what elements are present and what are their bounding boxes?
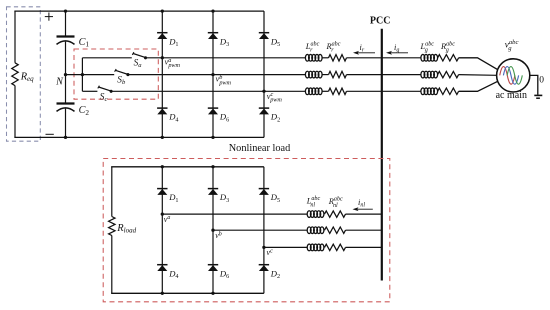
- wire coil-res a: [322, 57, 329, 59]
- wire left loop top: [14, 11, 16, 63]
- wire bridge leg c: [263, 11, 265, 137]
- svg-text:0: 0: [539, 76, 544, 86]
- wire load phase c: [264, 246, 307, 248]
- junction dot split node: [81, 73, 84, 76]
- wire load coil-res c: [323, 246, 326, 248]
- switch Sc: [98, 86, 113, 93]
- switch Sb: [115, 69, 130, 76]
- switch Sa: [132, 52, 147, 59]
- diode D4 load: [157, 265, 167, 271]
- diode D4: [157, 108, 167, 114]
- inductor Lg phase c: [421, 88, 438, 95]
- node vb dot: [211, 229, 214, 232]
- sine wave green phase: [507, 67, 522, 85]
- wire C1 top: [65, 11, 67, 36]
- resistor Rnl phase a: [325, 211, 346, 217]
- resistor Rr phase b: [329, 71, 347, 77]
- wire load coil-res b: [323, 229, 326, 231]
- wire load phase a: [162, 213, 307, 215]
- resistor Rg phase b: [438, 71, 459, 77]
- wire C1 to node N: [65, 42, 67, 75]
- sine wave blue phase: [503, 67, 518, 85]
- svg-text:N: N: [55, 76, 64, 87]
- wire Lg-Rg a: [436, 57, 438, 59]
- inductor Lg phase b: [421, 71, 438, 78]
- inductor Lg phase a: [421, 54, 438, 61]
- wire phase c to filter: [264, 90, 306, 92]
- wire load left bottom: [111, 236, 113, 294]
- current arrow ir: [353, 51, 375, 55]
- diode D5: [259, 33, 269, 39]
- node vc dot: [262, 246, 265, 249]
- ac source circle: [497, 59, 530, 92]
- resistor Rg phase c: [438, 88, 459, 94]
- wire coil-res c: [322, 90, 329, 92]
- wire Sa to leg a: [146, 57, 163, 59]
- wire Rnl c to PCC: [346, 246, 382, 248]
- wire branch a to switch Sa: [82, 57, 131, 59]
- wire load leg a: [161, 167, 163, 293]
- wire load bottom rail: [111, 292, 264, 294]
- resistor Rr phase c: [329, 88, 347, 94]
- wire Rr a to PCC: [347, 57, 422, 59]
- wire split vertical: [81, 58, 83, 92]
- inductor Lnl phase b: [307, 227, 324, 234]
- wire bridge leg b: [212, 11, 214, 137]
- node vpwm c dot: [262, 90, 265, 93]
- wire load leg b: [212, 167, 214, 293]
- resistor Rnl phase c: [325, 244, 346, 250]
- inductor Lr phase b: [305, 71, 322, 78]
- junction dots load bottom rail: [161, 292, 215, 295]
- node vpwm b dot: [211, 73, 214, 76]
- node vpwm a dot: [161, 56, 164, 59]
- wire coil-res b: [322, 74, 329, 76]
- capacitor C1: [57, 37, 75, 45]
- wire C2 bottom: [65, 109, 67, 138]
- label - terminal: [46, 133, 54, 135]
- node va dot: [161, 212, 164, 215]
- junction dot C1 top: [64, 9, 67, 12]
- wire source to ground: [530, 75, 538, 94]
- inductor Lnl phase c: [307, 244, 324, 251]
- wire phase b to filter: [213, 74, 306, 76]
- wire left loop bottom: [14, 86, 16, 138]
- current arrow inl: [353, 207, 373, 211]
- wire bridge leg a: [161, 11, 163, 137]
- PCC bus bar: [381, 29, 383, 281]
- diode D3: [208, 33, 218, 39]
- diode D2: [259, 108, 269, 114]
- resistor Rg phase a: [438, 55, 459, 61]
- resistor Rload: [109, 217, 115, 236]
- wire Sc to leg c: [111, 90, 264, 92]
- node N dot: [64, 73, 67, 76]
- wire load top rail: [111, 166, 264, 168]
- dashed box nonlinear load: [103, 159, 390, 302]
- wire top rail: [14, 10, 264, 12]
- wire Rg b to source: [459, 74, 497, 77]
- svg-text:PCC: PCC: [370, 15, 391, 26]
- wire load phase b: [213, 229, 307, 231]
- wire load left top: [111, 167, 113, 217]
- junction dots top rail: [161, 9, 215, 12]
- svg-text:Nonlinear load: Nonlinear load: [229, 143, 291, 154]
- svg-text:ac main: ac main: [496, 90, 527, 101]
- svg-text:C1: C1: [79, 37, 90, 49]
- wire bottom rail: [14, 136, 264, 138]
- resistor Req: [12, 63, 18, 86]
- inductor Lnl phase a: [307, 211, 324, 218]
- wire phase a to filter: [162, 57, 305, 59]
- wire Rnl b to PCC: [346, 229, 382, 231]
- dashed box around switches: [74, 49, 158, 99]
- dashed box around Req (dc equivalent): [7, 7, 41, 141]
- diode D5 load: [259, 189, 269, 195]
- wire load leg c: [263, 167, 265, 293]
- wire N to split node: [66, 74, 83, 76]
- diode D1: [157, 33, 167, 39]
- diode D6: [208, 108, 218, 114]
- wire Sb to leg b: [128, 74, 213, 76]
- wire Rg a to source: [459, 58, 498, 70]
- diode D2 load: [259, 265, 269, 271]
- diode D6 load: [208, 265, 218, 271]
- junction dot C2 bottom: [64, 136, 67, 139]
- junction dots load top rail: [161, 165, 215, 168]
- resistor Rr phase a: [329, 55, 347, 61]
- svg-text:C2: C2: [79, 105, 90, 117]
- resistor Rnl phase b: [325, 227, 346, 233]
- current arrow ig: [386, 51, 408, 55]
- ground symbol: [534, 95, 542, 98]
- wire load coil-res a: [323, 213, 326, 215]
- diode D3 load: [208, 189, 218, 195]
- junction dots bottom rail: [161, 136, 215, 139]
- sine wave red phase: [500, 67, 515, 85]
- wire Rr b to PCC: [347, 74, 422, 76]
- wire Rr c to PCC: [347, 90, 422, 92]
- inductor Lr phase c: [305, 88, 322, 95]
- wire branch b to switch Sb: [82, 74, 114, 76]
- inductor Lr phase a: [305, 54, 322, 61]
- capacitor C2: [57, 104, 75, 112]
- label + terminal: [45, 13, 53, 21]
- wire Rg c to source: [459, 81, 498, 91]
- wire Rnl a to PCC: [346, 213, 382, 215]
- wire Lg-Rg c: [436, 90, 438, 92]
- diode D1 load: [157, 189, 167, 195]
- wire Lg-Rg b: [436, 74, 438, 76]
- wire branch c to switch Sc: [82, 90, 97, 92]
- wire node N to C2: [65, 75, 67, 103]
